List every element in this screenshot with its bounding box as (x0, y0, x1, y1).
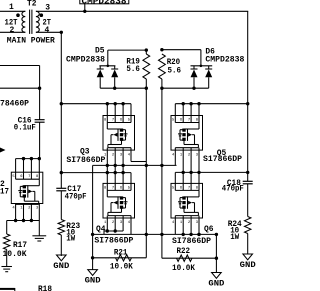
svg-text:T2: T2 (27, 0, 37, 9)
svg-text:2: 2 (188, 153, 191, 157)
svg-text:R17: R17 (13, 241, 27, 250)
svg-text:5: 5 (128, 118, 131, 122)
svg-text:78460P: 78460P (0, 100, 29, 109)
svg-text:2: 2 (112, 221, 115, 225)
svg-text:GND: GND (85, 277, 101, 286)
svg-text:Q3: Q3 (80, 147, 90, 156)
svg-text:CMPD2838: CMPD2838 (82, 0, 127, 6)
svg-text:4: 4 (12, 207, 15, 211)
svg-text:SI7866DP: SI7866DP (172, 237, 211, 246)
svg-text:GND: GND (208, 280, 224, 289)
svg-text:4: 4 (128, 221, 131, 225)
svg-text:4: 4 (172, 221, 175, 225)
svg-text:7: 7 (112, 118, 114, 122)
svg-text:3: 3 (45, 4, 50, 13)
svg-text:GND: GND (240, 261, 256, 270)
svg-text:2: 2 (10, 26, 15, 35)
svg-text:1W: 1W (66, 235, 75, 244)
svg-text:3: 3 (120, 153, 123, 157)
svg-text:3: 3 (196, 153, 199, 157)
svg-text:470pF: 470pF (222, 185, 244, 194)
svg-text:17: 17 (0, 187, 9, 196)
svg-text:7: 7 (28, 175, 30, 179)
svg-text:6: 6 (120, 186, 123, 190)
svg-text:5.6: 5.6 (168, 66, 182, 75)
svg-text:0.1uF: 0.1uF (14, 123, 36, 132)
svg-text:S17866DP: S17866DP (203, 155, 242, 164)
svg-text:4: 4 (128, 153, 131, 157)
svg-text:10.0K: 10.0K (3, 250, 27, 259)
svg-text:5: 5 (128, 186, 131, 190)
svg-text:8: 8 (104, 186, 107, 190)
svg-text:1W: 1W (230, 233, 239, 242)
svg-text:CMPD2838: CMPD2838 (66, 55, 105, 64)
svg-text:5: 5 (172, 118, 175, 122)
svg-text:4: 4 (45, 26, 50, 35)
svg-text:6: 6 (180, 118, 183, 122)
svg-text:CMPD2838: CMPD2838 (205, 56, 244, 65)
svg-text:4: 4 (172, 153, 175, 157)
svg-text:8: 8 (36, 175, 39, 179)
svg-text:3: 3 (120, 221, 123, 225)
svg-text:8: 8 (196, 118, 199, 122)
svg-text:5: 5 (172, 186, 175, 190)
svg-text:8: 8 (196, 186, 199, 190)
svg-text:SI7866DP: SI7866DP (66, 156, 105, 165)
svg-text:470pF: 470pF (65, 193, 87, 202)
svg-text:1: 1 (20, 207, 23, 211)
svg-text:6: 6 (180, 186, 183, 190)
svg-text:3: 3 (196, 221, 199, 225)
svg-text:R22: R22 (177, 247, 191, 256)
svg-text:1: 1 (180, 153, 183, 157)
svg-text:6: 6 (120, 118, 123, 122)
svg-text:Q6: Q6 (204, 225, 214, 234)
svg-text:2: 2 (28, 207, 31, 211)
svg-text:SI7866DP: SI7866DP (94, 236, 133, 245)
svg-text:5.6: 5.6 (126, 65, 140, 74)
svg-text:MAIN POWER: MAIN POWER (7, 37, 55, 46)
svg-text:6: 6 (20, 175, 23, 179)
svg-text:R21: R21 (114, 248, 128, 257)
svg-text:R18: R18 (38, 285, 52, 291)
svg-text:10.0K: 10.0K (172, 264, 195, 273)
svg-text:3: 3 (36, 207, 39, 211)
svg-text:1: 1 (180, 221, 183, 225)
svg-text:2: 2 (112, 153, 115, 157)
svg-text:8: 8 (104, 118, 107, 122)
svg-text:D5: D5 (95, 46, 105, 55)
svg-text:10.0K: 10.0K (110, 263, 133, 272)
svg-text:GND: GND (53, 262, 69, 271)
svg-text:5: 5 (12, 175, 15, 179)
svg-text:7: 7 (188, 118, 190, 122)
svg-text:7: 7 (188, 186, 190, 190)
svg-text:1: 1 (9, 3, 14, 12)
svg-text:7: 7 (112, 186, 114, 190)
svg-text:2: 2 (188, 221, 191, 225)
